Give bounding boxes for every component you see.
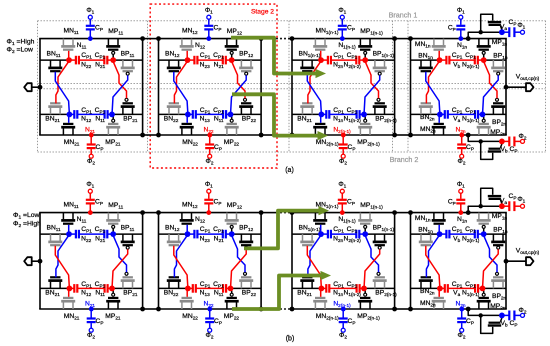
svg-text:Φ2​: Φ2​ <box>339 158 347 166</box>
svg-text:Φ1​: Φ1​ <box>86 7 94 15</box>
svg-text:Stage 2: Stage 2 <box>251 9 274 16</box>
svg-text:Φ2​: Φ2​ <box>519 307 527 315</box>
svg-text:Φ1​: Φ1​ <box>338 181 346 189</box>
svg-text:Φ2​: Φ2​ <box>458 332 466 340</box>
svg-text:Φ2​: Φ2​ <box>519 133 527 141</box>
svg-text:Branch 1: Branch 1 <box>389 11 418 20</box>
svg-text:Vb​: Vb​ <box>453 61 460 69</box>
svg-text:Va​: Va​ <box>453 289 460 297</box>
svg-text:Φ2​: Φ2​ <box>339 332 347 340</box>
svg-text:Vb​: Vb​ <box>501 146 508 154</box>
svg-text:Vb​: Vb​ <box>501 320 508 328</box>
svg-text:(b): (b) <box>286 335 295 342</box>
svg-text:Φ2​: Φ2​ <box>458 158 466 166</box>
svg-text:Φ1​: Φ1​ <box>86 181 94 189</box>
svg-text:Φ1​: Φ1​ <box>517 196 525 204</box>
svg-text:Φ1​: Φ1​ <box>457 181 465 189</box>
svg-text:Φ2​: Φ2​ <box>206 158 214 166</box>
svg-text:Vb​: Vb​ <box>453 235 460 243</box>
svg-text:Va​: Va​ <box>500 24 507 32</box>
svg-text:Va​: Va​ <box>500 198 507 206</box>
svg-text:Φ2​: Φ2​ <box>206 332 214 340</box>
svg-text:(a): (a) <box>285 167 294 174</box>
svg-text:Φ2​: Φ2​ <box>87 158 95 166</box>
svg-text:Φ1​: Φ1​ <box>457 7 465 15</box>
svg-text:Φ1​: Φ1​ <box>517 22 525 30</box>
svg-text:Φ1​: Φ1​ <box>205 7 213 15</box>
svg-text:Φ1​: Φ1​ <box>205 181 213 189</box>
svg-text:Φ2​: Φ2​ <box>87 332 95 340</box>
svg-text:Branch 2: Branch 2 <box>390 155 419 164</box>
svg-text:Φ1​: Φ1​ <box>338 7 346 15</box>
svg-text:Va​: Va​ <box>453 115 460 123</box>
